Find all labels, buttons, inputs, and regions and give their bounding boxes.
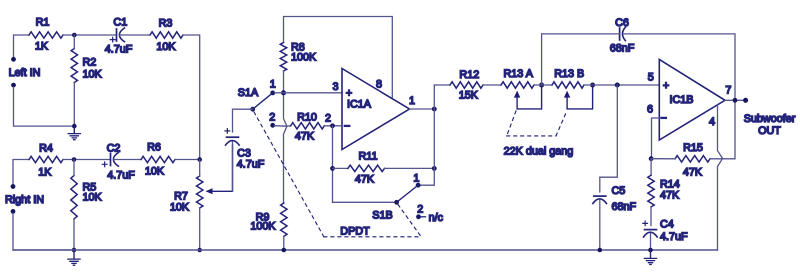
svg-text:100K: 100K xyxy=(291,52,317,64)
capacitor C1 xyxy=(105,17,133,56)
svg-text:4.7uF: 4.7uF xyxy=(237,159,265,171)
wire: R2 leads xyxy=(73,35,75,126)
svg-text:2: 2 xyxy=(325,112,331,124)
wire: pin1 node up to R12 row xyxy=(434,84,450,86)
svg-text:1: 1 xyxy=(409,95,415,107)
potentiometer R13A xyxy=(501,68,542,109)
resistor R10 xyxy=(291,111,325,142)
svg-text:R15: R15 xyxy=(683,142,703,154)
svg-text:R10: R10 xyxy=(297,111,317,123)
node junction R11 right xyxy=(432,166,437,171)
svg-text:R3: R3 xyxy=(159,17,173,29)
wire: R14 to C4 xyxy=(650,207,652,226)
svg-text:−: − xyxy=(344,120,350,132)
node Right IN lower terminal xyxy=(11,209,16,214)
node junction pin 7 xyxy=(733,98,738,103)
wire: R7 leads xyxy=(199,160,201,251)
label Subwoofer OUT xyxy=(744,113,796,137)
svg-text:47K: 47K xyxy=(295,130,315,142)
wire: R9 to rail xyxy=(283,236,285,250)
svg-text:R6: R6 xyxy=(147,142,161,154)
wire: R1 to C1 xyxy=(63,34,116,36)
svg-text:47K: 47K xyxy=(355,173,375,185)
wire: C2 to R6 xyxy=(114,159,141,161)
wire: R12 to R13A xyxy=(483,84,501,86)
svg-text:10K: 10K xyxy=(170,202,190,214)
node Left IN lower terminal xyxy=(11,83,16,88)
wire: R6 to junction xyxy=(175,159,200,161)
node R9 bottom on rail xyxy=(282,248,287,253)
ground under C4 xyxy=(644,250,656,265)
node C5 bottom on rail xyxy=(598,248,603,253)
node Right IN upper terminal xyxy=(11,184,16,189)
svg-text:68nF: 68nF xyxy=(612,201,637,213)
svg-text:IC1B: IC1B xyxy=(669,94,693,106)
svg-text:4.7uF: 4.7uF xyxy=(660,231,688,243)
svg-text:IC1A: IC1A xyxy=(347,99,372,111)
switch S1A xyxy=(238,79,276,128)
node junction pin2/R11 xyxy=(330,123,335,128)
svg-text:Right IN: Right IN xyxy=(5,194,44,206)
wire: IC1A output pin 1 xyxy=(410,108,435,110)
wire: Right IN lower terminal to bottom rail xyxy=(13,213,74,250)
wire: pin2 node down to R11 and S1B pole xyxy=(333,126,397,203)
svg-text:+: + xyxy=(663,80,669,92)
wire: R11 left lead xyxy=(333,167,348,169)
node junction C5 branch xyxy=(615,83,620,88)
wire: R13A to R13B xyxy=(534,84,552,86)
svg-text:10K: 10K xyxy=(156,41,176,53)
node junction pin 1 xyxy=(432,107,437,112)
svg-text:−: − xyxy=(661,113,667,125)
wire: C1 to R3 xyxy=(120,34,150,36)
wire: Right IN upper terminal to R4 xyxy=(13,160,29,185)
node junction R4/R5 xyxy=(72,157,77,162)
resistor R14 xyxy=(648,175,680,207)
wire: R15 left lead xyxy=(651,158,675,160)
svg-text:C1: C1 xyxy=(113,17,127,29)
wire: C3 bottom to R7 wiper line xyxy=(232,142,234,192)
svg-text:1K: 1K xyxy=(35,41,49,53)
ground under R5 xyxy=(68,248,80,266)
capacitor C4 xyxy=(643,218,688,243)
wire: IC1B output pin 7 xyxy=(725,99,746,101)
node junction R13A/R13B/C6 xyxy=(539,83,544,88)
node R7 bottom on rail xyxy=(197,248,202,253)
resistor R15 xyxy=(675,142,710,179)
svg-text:R11: R11 xyxy=(358,151,377,163)
wire: R14 top lead xyxy=(650,159,652,176)
wire: C5 branch down and left xyxy=(600,85,618,192)
svg-text:4.7uF: 4.7uF xyxy=(107,170,135,182)
svg-text:3: 3 xyxy=(332,81,338,93)
node junction bias / pin 3 xyxy=(281,90,286,95)
wire: pin 3 input wire xyxy=(284,92,343,94)
wire: dual-gang linkage dashed xyxy=(507,111,567,136)
svg-text:R2: R2 xyxy=(83,57,97,69)
wire: C6 loop from R13 junction to output xyxy=(542,34,735,100)
svg-text:10K: 10K xyxy=(83,69,103,81)
wire: DPDT linkage dashed xyxy=(254,112,422,237)
wire: Left IN lower terminal to ground xyxy=(14,87,73,126)
resistor R1 xyxy=(29,17,63,53)
wire: pin 4 line with jog, down to rail xyxy=(718,105,723,250)
svg-text:10K: 10K xyxy=(145,166,165,178)
svg-text:C5: C5 xyxy=(612,185,626,197)
svg-text:Left IN: Left IN xyxy=(9,67,41,79)
svg-text:OUT: OUT xyxy=(758,125,781,137)
svg-text:R12: R12 xyxy=(459,69,479,81)
svg-text:C6: C6 xyxy=(615,17,629,29)
capacitor C5 xyxy=(593,185,637,213)
svg-text:Subwoofer: Subwoofer xyxy=(744,113,796,125)
wire: R4 to C2 xyxy=(63,159,110,161)
svg-text:5: 5 xyxy=(648,72,654,84)
wire: Left IN upper terminal to R1 xyxy=(14,35,30,57)
svg-text:6: 6 xyxy=(647,104,653,116)
svg-text:1K: 1K xyxy=(38,167,52,179)
wire: R10 to pin 2 xyxy=(324,125,342,127)
resistor R3 xyxy=(150,17,183,53)
svg-text:DPDT: DPDT xyxy=(340,225,370,237)
wire: R15 right to feedback vertical xyxy=(710,100,735,159)
wire: R8 to pin3 node, with jog past R10 row, down to R9 xyxy=(284,71,287,203)
wire: R3 right, down to R6/R7 junction xyxy=(183,35,200,160)
svg-text:68nF: 68nF xyxy=(610,42,635,54)
svg-text:S1A: S1A xyxy=(238,87,259,99)
wire: R13B to IC1B pin 5 xyxy=(584,84,659,86)
svg-text:47K: 47K xyxy=(683,167,703,179)
resistor R2 xyxy=(71,49,102,83)
wire: S1A throw 1 to pin3 node xyxy=(275,92,284,94)
svg-text:15K: 15K xyxy=(459,90,479,102)
op-amp IC1A xyxy=(325,69,415,150)
svg-text:R13 A: R13 A xyxy=(503,68,533,80)
capacitor C3 xyxy=(225,129,265,171)
svg-text:8: 8 xyxy=(376,78,382,90)
resistor R4 xyxy=(29,143,63,179)
svg-text:7: 7 xyxy=(725,84,731,96)
wire: output vertical to R12 row and to S1B throw 1 xyxy=(420,85,434,185)
wire: R5 leads xyxy=(73,160,75,251)
node junction pin6/R14/R15 xyxy=(649,156,654,161)
wire: pin 6 bracket down to R14/R15 node xyxy=(652,118,660,159)
svg-text:4: 4 xyxy=(709,116,715,128)
switch S1B xyxy=(372,173,443,224)
resistor R6 xyxy=(141,142,175,178)
svg-text:2: 2 xyxy=(269,112,275,124)
svg-text:n/c: n/c xyxy=(429,212,444,224)
svg-text:4.7uF: 4.7uF xyxy=(105,44,133,56)
node junction R6/R7 xyxy=(197,157,202,162)
node Left IN upper terminal xyxy=(11,57,16,62)
node junction R1/R2 xyxy=(72,33,77,38)
wire: S1A throw 2 to R10 xyxy=(275,125,291,128)
resistor R11 xyxy=(348,151,385,186)
resistor R5 xyxy=(71,176,103,220)
wire: bottom ground rail xyxy=(13,249,718,251)
node C4 bottom on rail xyxy=(648,248,653,253)
svg-text:+: + xyxy=(346,88,352,100)
resistor R8 xyxy=(280,42,317,72)
svg-text:R1: R1 xyxy=(36,17,50,29)
svg-text:R13 B: R13 B xyxy=(554,68,584,80)
svg-text:100K: 100K xyxy=(250,220,276,232)
wire: top supply rail R8 to IC1A pin 8 xyxy=(284,17,393,98)
op-amp IC1B xyxy=(647,60,731,141)
svg-text:1: 1 xyxy=(270,79,276,91)
svg-text:22K dual gang: 22K dual gang xyxy=(504,146,574,158)
svg-text:2: 2 xyxy=(417,203,423,215)
potentiometer R7 xyxy=(170,176,203,214)
svg-text:10K: 10K xyxy=(83,192,103,204)
node Subwoofer OUT terminal xyxy=(743,98,748,103)
svg-text:C4: C4 xyxy=(660,218,674,230)
svg-text:C2: C2 xyxy=(107,143,121,155)
wire: R11 right to output vertical xyxy=(385,167,435,169)
wiper arrow of R7 to C3 xyxy=(206,145,233,194)
wire: C4 bottom to rail xyxy=(650,234,652,251)
svg-text:47K: 47K xyxy=(660,189,680,201)
svg-text:S1B: S1B xyxy=(372,210,392,222)
wire: C5 bottom to rail xyxy=(599,200,601,250)
resistor R12 xyxy=(450,69,483,102)
ground under R2 xyxy=(68,124,80,140)
capacitor C6 xyxy=(610,17,635,55)
capacitor C2 xyxy=(102,143,135,182)
potentiometer R13B xyxy=(552,68,593,109)
svg-text:R4: R4 xyxy=(39,143,53,155)
node junction R11 left xyxy=(330,166,335,171)
resistor R9 xyxy=(250,203,287,236)
svg-text:1: 1 xyxy=(413,173,419,185)
node junction R13B right xyxy=(590,83,595,88)
wire: S1A pole to C3 xyxy=(233,109,253,132)
